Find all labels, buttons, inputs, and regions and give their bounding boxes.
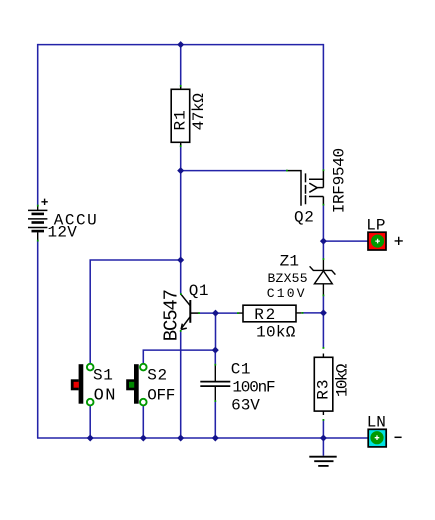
- wire Q1 base to R2: [199, 312, 237, 314]
- wire gate (R1 node to Q2 gate): [181, 170, 287, 172]
- wire left rail upper (battery +): [37, 44, 39, 206]
- ground symbol: [309, 457, 336, 466]
- battery B1 ACCU 12V: [28, 206, 47, 241]
- wire LP branch: [323, 240, 373, 242]
- pin Q2 drain: [323, 169, 325, 171]
- wire Q1 emitter down: [180, 331, 182, 438]
- svg-text:C10V: C10V: [267, 286, 307, 301]
- junction node C1 bottom rail: [212, 435, 219, 442]
- battery pin top: [37, 205, 39, 207]
- svg-text:OFF: OFF: [147, 386, 175, 404]
- transistor Q1 BC547: [181, 294, 199, 329]
- svg-text:100nF: 100nF: [232, 379, 275, 397]
- svg-text:R3: R3: [315, 378, 333, 399]
- wire Z1 bottom to R3 top: [322, 295, 324, 347]
- battery plus mark: [41, 199, 47, 205]
- pin Q2 gate: [286, 170, 288, 172]
- svg-text:Z1: Z1: [280, 253, 300, 271]
- wire Q2 source to Z1 top: [322, 205, 324, 259]
- pin C1 bottom: [214, 400, 216, 402]
- junction node ground rail: [320, 435, 327, 442]
- wire Q2 drain: [322, 44, 324, 170]
- svg-text:63V: 63V: [231, 397, 260, 415]
- svg-text:IRF9540: IRF9540: [330, 148, 348, 213]
- junction node emitter bottom rail: [177, 435, 184, 442]
- wire Q1 collector: [180, 260, 182, 294]
- zener diode Z1 BZX55 C10V: [310, 259, 336, 295]
- label minus: [395, 436, 402, 438]
- wire C1 node down to C1: [214, 350, 216, 365]
- wire S2 top branch: [143, 350, 215, 363]
- svg-text:LN: LN: [367, 414, 386, 432]
- wire base node down to C1 node: [215, 313, 217, 350]
- junction node S1 bottom rail: [87, 435, 94, 442]
- label plus: [395, 237, 403, 245]
- wire left rail lower (battery -): [37, 241, 39, 439]
- svg-text:10kΩ: 10kΩ: [256, 323, 296, 341]
- junction node R1 bottom / gate: [177, 167, 184, 174]
- terminal LN: [368, 429, 386, 447]
- capacitor C1: [200, 365, 230, 401]
- wire top rail: [38, 44, 324, 46]
- wire bottom rail: [37, 437, 373, 439]
- svg-text:R2: R2: [254, 306, 277, 324]
- junction node LP: [320, 238, 327, 245]
- resistor R1: [171, 85, 190, 147]
- wire S1 bottom: [89, 406, 91, 438]
- resistor R3: [314, 347, 333, 421]
- svg-text:BZX55: BZX55: [268, 271, 308, 286]
- terminal LP: [368, 232, 386, 250]
- wire S2 bottom: [142, 406, 144, 438]
- svg-text:C1: C1: [231, 360, 251, 378]
- mosfet Q2 IRF9540: [287, 170, 324, 206]
- junction node base / R2: [212, 310, 219, 317]
- svg-text:BC547: BC547: [161, 290, 183, 341]
- svg-text:ON: ON: [94, 386, 117, 405]
- resistor R2: [237, 305, 303, 322]
- pin Q1 base: [198, 312, 200, 314]
- svg-text:S2: S2: [147, 366, 167, 384]
- wire R1 bottom to Q1 collector branch: [180, 144, 182, 260]
- svg-text:LP: LP: [366, 217, 385, 235]
- pin C1 top: [214, 364, 216, 366]
- pin Z1 top: [323, 258, 325, 260]
- junction node R2 right: [320, 309, 327, 316]
- wire S1 branch: [90, 260, 181, 363]
- junction node C1 top: [212, 347, 219, 354]
- wire R2 right: [303, 312, 324, 314]
- svg-text:Q2: Q2: [294, 209, 314, 227]
- junction node Q1 collector / S1: [177, 257, 184, 264]
- svg-text:47kΩ: 47kΩ: [190, 93, 208, 131]
- pin Q1 emitter: [180, 330, 182, 332]
- pin Q1 collector: [180, 293, 182, 295]
- svg-text:12V: 12V: [48, 224, 78, 242]
- junction node S2 bottom rail: [140, 435, 147, 442]
- pin Z1 bottom: [323, 295, 325, 297]
- wire R3 bottom to ground: [322, 420, 324, 456]
- svg-text:S1: S1: [93, 366, 113, 384]
- junction node R1 top: [177, 41, 184, 48]
- pin Q2 source: [323, 204, 325, 206]
- battery pin bottom: [37, 240, 39, 242]
- svg-text:R1: R1: [172, 109, 190, 130]
- svg-text:Q1: Q1: [189, 282, 209, 300]
- switch S1 ON: [71, 364, 94, 406]
- svg-text:10kΩ: 10kΩ: [333, 363, 351, 397]
- switch S2 OFF: [126, 364, 146, 406]
- wire R1 top: [180, 45, 182, 88]
- wire C1 bottom: [214, 401, 216, 438]
